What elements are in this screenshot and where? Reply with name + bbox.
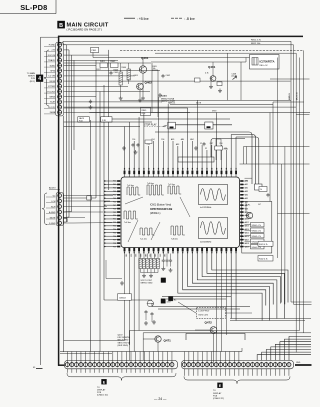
pointer line 1 (125, 197, 143, 204)
svg-text:X1: X1 (200, 143, 202, 145)
IC601 bottom pin 12 (177, 248, 179, 252)
pointer line 4 (180, 197, 190, 217)
IC601 top pin 56 (196, 171, 198, 175)
connector CN601 pin 22 (161, 363, 165, 367)
wire CN602 pin 23 down (283, 369, 285, 376)
wire CN601 pin 15 up (130, 352, 132, 363)
capacitor C612 (169, 259, 172, 263)
connector CN601 pin 3 (74, 363, 78, 367)
wire from CN603 pin 12 (64, 101, 162, 103)
connector CN602 body (182, 360, 294, 368)
ground g14 (144, 321, 148, 325)
wire CN602 pin 10 up (224, 352, 226, 363)
wire v246 (245, 58, 247, 63)
connector CN601 pin 23 (165, 363, 169, 367)
wire bus r6 (303, 50, 305, 102)
IC601 bottom pin 6 (148, 248, 150, 252)
IC601 right pin 63 (240, 208, 243, 210)
wire mid h104 (170, 104, 273, 106)
capacitor C611 (165, 259, 168, 263)
capacitor C402 (161, 74, 164, 78)
wire CN601 pin 12 down (116, 369, 118, 373)
svg-text:REG +5V: REG +5V (260, 65, 269, 67)
wire right h79 (270, 78, 310, 80)
wire CN601 pin 7 up (94, 352, 96, 363)
capacitor C401 (109, 71, 112, 75)
wire vertical bus a (63, 116, 65, 352)
IC601 left pin 38 (117, 218, 120, 220)
brace CN601 (67, 373, 176, 380)
svg-text:10k: 10k (153, 68, 156, 70)
wire vertical bus h (108, 50, 110, 190)
svg-text:P55: P55 (113, 232, 116, 234)
wire fan 1 (212, 254, 288, 303)
IC601 top pin 43 (133, 171, 135, 175)
wire corner (64, 219, 68, 223)
IC601 right pin 71 (240, 235, 243, 237)
IC601 top pin 59 (211, 171, 213, 175)
connector CN603 pin 9 (58, 84, 62, 88)
svg-text:R475 C475: R475 C475 (199, 315, 209, 317)
wire gnd tail (295, 364, 312, 366)
node box B1 (118, 294, 132, 300)
capacitor C409 (89, 100, 92, 104)
IC601 right pin 67 (240, 222, 243, 224)
wire CN601 pin 16 down (135, 369, 137, 373)
IC601 top pin 58 (206, 171, 208, 175)
wire CN601 pin 18 up (144, 352, 146, 363)
svg-text:Q471: Q471 (164, 339, 172, 343)
svg-text:P58: P58 (113, 243, 116, 245)
IC601 left pin 46 (117, 246, 120, 248)
IC601 top pin 60 (216, 171, 218, 175)
wire CN602 pin 14 down (242, 369, 244, 376)
connector CN601 pin 20 (152, 363, 156, 367)
svg-text:IC2750FETA: IC2750FETA (260, 60, 275, 64)
wire CN601 pin 15 down (130, 369, 132, 373)
wire right v277 (277, 58, 279, 259)
wire CN602 pin 8 up (215, 352, 217, 363)
svg-text:Q401: Q401 (208, 65, 216, 69)
connector CN602 pin 8 (214, 363, 218, 367)
wire vertical bus e (95, 60, 97, 198)
connector CN602 pin 6 (205, 363, 209, 367)
wire bus r5 (303, 50, 305, 332)
svg-text:C401: C401 (114, 72, 119, 74)
marker small1 (161, 299, 165, 303)
wire h278 (106, 278, 122, 280)
wire rail53 (155, 52, 296, 54)
svg-text:P48: P48 (113, 208, 116, 210)
ground g8 (122, 146, 126, 150)
wire CN602 pin 6 up (206, 352, 208, 363)
connector CN603 pin 8 (58, 79, 62, 83)
wire CN601 pin 16 up (135, 352, 137, 363)
svg-text:T=4.3ms: T=4.3ms (124, 222, 131, 224)
wire Q401a emitter (142, 73, 144, 96)
wire mid h5 (64, 126, 140, 128)
connector CN602 pin 4 (196, 363, 200, 367)
IC601 bottom pin 5 (143, 248, 145, 252)
wire CN601 pin 14 down (125, 369, 127, 373)
connector CN603 pin 1 (58, 43, 62, 47)
wire fanL1 (152, 303, 250, 307)
wire CN601 pin 24 down (171, 369, 173, 373)
wire CN602 pin 16 down (252, 369, 254, 376)
svg-text:P45: P45 (113, 198, 116, 200)
connector CN603 pin 2 (58, 48, 62, 52)
svg-text:E1: E1 (33, 367, 35, 369)
transistor Q401a (139, 66, 146, 73)
pointer line 2 (128, 220, 138, 242)
wire right h114 (296, 114, 309, 116)
wire fanL2 (158, 308, 240, 310)
waveform sq2 (147, 185, 164, 195)
capacitor C412 (202, 142, 205, 146)
transistor Q402 (137, 83, 144, 90)
wire IC pin2 down (128, 254, 130, 346)
svg-text:SERVO GND: SERVO GND (141, 283, 154, 285)
wire CN601 pin 5 down (85, 369, 87, 373)
connector CN602 pin 5 (201, 363, 205, 367)
IC601 right pin 59 (240, 194, 243, 196)
connector CN601 body (65, 360, 178, 368)
wire mid h2 (89, 112, 310, 114)
wire mid h1 (64, 96, 162, 98)
legend +B line (124, 17, 135, 19)
left frame wire (40, 37, 42, 365)
waveform sq5 (140, 228, 154, 235)
connector CN603 pin 10 (58, 90, 62, 94)
wire upper rail (93, 57, 278, 59)
ground g3 (141, 96, 145, 100)
wire from CN603 pin 6 (64, 70, 160, 72)
wire CN601 pin 2 up (71, 352, 73, 363)
connector CN601 pin 24 (170, 363, 174, 367)
wire CN601 pin 17 down (139, 369, 141, 373)
ground g9 (134, 150, 138, 154)
svg-text:3.3V: 3.3V (167, 302, 172, 304)
IC601 left pin 36 (117, 211, 120, 213)
ground g2 (138, 98, 142, 102)
connector CN601 pin 7 (93, 363, 97, 367)
svg-text:4.7k: 4.7k (205, 73, 209, 75)
waveform sq4 (124, 211, 138, 219)
brace CN603 (44, 50, 49, 106)
resistor R613 (149, 259, 152, 269)
wire CN602 pin 11 down (229, 369, 231, 376)
wire from CN603 pin 10 (64, 91, 150, 93)
IC601 bottom pin 16 (196, 248, 198, 252)
IC601 bottom pin 2 (128, 248, 130, 252)
IC601 right pin 68 (240, 225, 243, 227)
svg-text:4.7k: 4.7k (142, 113, 146, 115)
svg-text:(FFC): (FFC) (30, 81, 36, 83)
connector CN604 body (56, 193, 63, 226)
connector CN601 pin 15 (129, 363, 133, 367)
wire vertical bus d (71, 55, 73, 211)
connector CN601 pin 14 (124, 363, 128, 367)
connector CN601 pin 19 (147, 363, 151, 367)
wire CN602 pin 4 down (197, 369, 199, 376)
IC601 right pin 74 (240, 246, 243, 248)
crystal X601 (215, 146, 223, 150)
wire IC pin1 down (124, 254, 126, 341)
wire CN604 pin 5 (63, 217, 85, 219)
connector CN602 pin 10 (223, 363, 227, 367)
wire fan 4 (197, 254, 277, 319)
wire bus r7 (280, 164, 282, 303)
IC601 top pin 54 (187, 171, 189, 175)
wire right v273 (272, 102, 274, 164)
svg-text:MUTE B: MUTE B (297, 92, 299, 100)
svg-text:TRACK: TRACK (48, 59, 56, 62)
svg-text:T=4.3ms: T=4.3ms (127, 185, 134, 187)
svg-text:DISPLAY: DISPLAY (213, 392, 222, 395)
svg-text:P42: P42 (113, 188, 116, 190)
wire bus r4 (299, 58, 301, 331)
connector CN602 pin 12 (232, 363, 236, 367)
wire right out213 (278, 213, 310, 215)
IC601 right pin 64 (240, 211, 243, 213)
wire mid h4 (64, 121, 152, 123)
wire pin down h300 (104, 299, 152, 301)
wire CN601 pin 23 down (166, 369, 168, 373)
wire CN601 pin 24 up (171, 352, 173, 363)
wire CN601 pin 1 down (66, 369, 68, 373)
IC601 top pin 62 (225, 171, 227, 175)
small box right (255, 184, 263, 190)
IC601 bottom pin 11 (172, 248, 174, 252)
wire CN601 pin 20 down (153, 369, 155, 373)
svg-text:T=8.6ms: T=8.6ms (171, 239, 178, 241)
IC601 bottom pin 22 (225, 248, 227, 252)
wire vertical bus d2 (73, 60, 75, 150)
IC601 right pin 72 (240, 239, 243, 241)
resistor R612 (146, 259, 149, 269)
wire IC pin4 down (138, 254, 140, 331)
transistor Q401b (210, 76, 216, 82)
IC601 top pin 53 (182, 171, 184, 175)
wire CN604 pin 3 (63, 206, 107, 208)
wire CN601 pin 8 up (98, 352, 100, 363)
wire Q402 (139, 90, 141, 98)
wire CN602 pin 6 down (206, 369, 208, 376)
svg-text:P50: P50 (113, 215, 116, 217)
wire CN602 pin 9 down (220, 369, 222, 376)
IC601 left pin 30 (117, 191, 120, 193)
+B bus thick left wire (58, 36, 60, 366)
wire CN602 pin 1 up (183, 352, 185, 363)
wire CN601 pin 12 up (116, 352, 118, 363)
connector CN603 pin 7 (58, 74, 62, 78)
connector CN601 pin 17 (138, 363, 142, 367)
IC601 right pin 58 (240, 191, 243, 193)
wire CN601 pin 2 down (71, 369, 73, 373)
boxed label R409 (195, 78, 201, 82)
IC601 top pin 50 (167, 171, 169, 175)
label box p-jack (101, 117, 112, 122)
svg-text:STOP PLAY: STOP PLAY (144, 123, 157, 126)
svg-text:AN2: AN2 (190, 138, 193, 141)
wire left pin ext1 (85, 195, 101, 197)
svg-text:AUDIO: AUDIO (49, 187, 56, 190)
capacitor C410 (131, 143, 134, 147)
IC601 left pin 31 (117, 194, 120, 196)
wire CN601 pin 9 down (103, 369, 105, 373)
wire CN601 pin 22 up (162, 352, 164, 363)
svg-text:R404: R404 (121, 67, 126, 69)
IC601 left pin 29 (117, 187, 120, 189)
svg-text:P51: P51 (113, 219, 116, 221)
IC601 top pin 51 (172, 171, 174, 175)
wire pin20 down (221, 254, 223, 352)
svg-text:VR405 4.7k: VR405 4.7k (252, 247, 261, 249)
wire pin1 (64, 44, 67, 46)
wire CN602 pin 19 down (265, 369, 267, 376)
wire CN601 pin 13 up (121, 352, 123, 363)
connector CN602 pin 21 (273, 363, 277, 367)
svg-text:— 24 —: — 24 — (154, 397, 167, 401)
wire v241 (240, 62, 242, 100)
wire pin23 up (235, 137, 237, 177)
IC601 bottom pin 10 (167, 248, 169, 252)
connector CN604 pin 6 (58, 221, 62, 225)
loop filter box (197, 308, 226, 319)
svg-text:P06: P06 (161, 139, 164, 141)
IC601 left pin 37 (117, 215, 120, 217)
wire staircase 5 (271, 347, 311, 361)
connector CN603 pin 3 (58, 53, 62, 57)
wire R812 rail (63, 44, 294, 46)
IC601 top pin 45 (143, 171, 145, 175)
wire Q401b (212, 62, 214, 76)
wire CN602 pin 1 down (183, 369, 185, 376)
svg-text:AN0: AN0 (181, 138, 184, 141)
svg-text:DATA: DATA (50, 111, 56, 114)
wire CN602 pin 13 up (238, 352, 240, 363)
boxed label R439 (259, 187, 267, 192)
svg-text:T=8.6ms: T=8.6ms (147, 183, 154, 185)
IC601 left pin 43 (117, 235, 120, 237)
svg-text:: +B line: : +B line (137, 17, 149, 21)
wire CN601 pin 19 up (148, 352, 150, 363)
connector CN603 pin 13 (58, 105, 62, 109)
ground g11 (161, 267, 165, 271)
IC601 bottom pin 17 (201, 248, 203, 252)
IC601 left pin 34 (117, 204, 120, 206)
capacitor C473 (150, 312, 153, 316)
wire CN602 pin 3 down (192, 369, 194, 376)
wire R404 (128, 63, 130, 69)
connector CN603 pin 12 (58, 100, 62, 104)
crystal X601 wires (215, 139, 217, 160)
wire CN604 pin 6 (63, 222, 74, 224)
wire CN602 pin 12 up (233, 352, 235, 363)
wire R403 (120, 63, 122, 72)
label box R809 (141, 108, 151, 116)
wire Q404 (245, 202, 247, 213)
connector CN602 pin 13 (237, 363, 241, 367)
wire low h320 (230, 320, 305, 322)
svg-text:B: B (59, 23, 63, 29)
wire CN602 pin 4 up (197, 352, 199, 363)
ground g15 (152, 320, 156, 324)
waveform sine2 box (199, 218, 228, 239)
svg-text:C402: C402 (166, 75, 171, 77)
IC601 top pin 48 (158, 171, 160, 175)
wire from CN603 pin 9 (64, 85, 128, 87)
IC601 left pin 42 (117, 232, 120, 234)
resistor R615 (156, 259, 159, 269)
wire Q401a collector (142, 58, 144, 66)
IC601 left pin 39 (117, 222, 120, 224)
wire CN602 pin 10 down (224, 369, 226, 376)
wire staircase 7 (262, 352, 311, 360)
wire rail y62 (151, 61, 246, 63)
connector CN601 pin 16 (134, 363, 138, 367)
IC601 right pin 60 (240, 197, 243, 199)
wire CN601 pin 10 up (107, 352, 109, 363)
ground g16 (89, 105, 93, 109)
wire bus r2 (293, 45, 295, 305)
connector CN603 pin 6 (58, 69, 62, 73)
label box P801 (91, 48, 99, 53)
wire fan 6 (188, 254, 270, 321)
IC601 body (121, 177, 240, 248)
wire IC pin3 down (133, 254, 135, 352)
wire CN602 pin 15 down (247, 369, 249, 376)
connector CN601 pin 18 (143, 363, 147, 367)
connector CN601 pin 12 (115, 363, 119, 367)
wire CN601 pin 4 down (80, 369, 82, 373)
wire fan 5 (192, 254, 273, 305)
resistor R402 (111, 63, 119, 68)
wire CN601 pin 11 down (112, 369, 114, 373)
IC601 left pin 40 (117, 225, 120, 227)
wire long h302 (152, 302, 291, 304)
wire CN601 pin 9 up (103, 352, 105, 363)
IC601 bottom pin 23 (230, 248, 232, 252)
wire R811 rail (63, 40, 291, 42)
wire staircase 4 (275, 344, 311, 360)
connector CN601 pin 21 (156, 363, 160, 367)
resistor block VR404 (251, 239, 265, 243)
waveform sine1 box (199, 185, 228, 205)
wire CN602 pin 8 down (215, 369, 217, 376)
resistor block VR402 (251, 228, 265, 232)
brace CN604 (42, 193, 47, 225)
transistor Q404 (246, 212, 252, 218)
node box sp (168, 122, 176, 129)
node box jack (87, 196, 92, 200)
svg-text:4.7k: 4.7k (245, 181, 248, 183)
connector CN603 pin 11 (58, 95, 62, 99)
ground g1 (119, 96, 123, 100)
ground row1 (142, 274, 146, 278)
svg-text:UPD78044F139: UPD78044F139 (150, 207, 172, 211)
IC601 right pin 55 (240, 180, 243, 182)
wire from CN603 pin 8 (64, 80, 291, 82)
wire Q471 (157, 342, 159, 351)
IC601 right pin 70 (240, 232, 243, 234)
resistor block R442 (258, 256, 273, 262)
IC601 top pin 55 (191, 171, 193, 175)
resistor block VR403 (251, 234, 265, 238)
wire CN601 pin 20 up (153, 352, 155, 363)
wire from CN603 pin 11 (64, 96, 96, 98)
marker small2 (169, 297, 173, 301)
